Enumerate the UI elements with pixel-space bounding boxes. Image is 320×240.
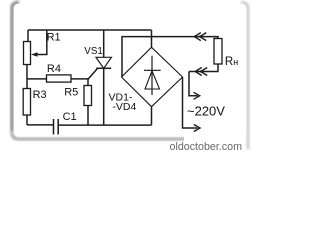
wire: R4 right to gate node — [71, 78, 88, 80]
mains pin arrow lower — [194, 125, 200, 132]
wire: bridge left corner up and right to load connector — [122, 37, 218, 77]
bridge inner diode triangle — [145, 71, 160, 89]
resistor R3 body — [23, 89, 30, 116]
wire: R1 bottom to junction node — [26, 65, 28, 80]
resistor Rn (load) body — [214, 39, 222, 65]
svg-text:~220V: ~220V — [187, 104, 225, 119]
label VD1- — [108, 91, 136, 103]
capacitor C1 right plate — [57, 119, 59, 135]
svg-text:oldoctober.com: oldoctober.com — [170, 141, 243, 153]
bridge inner diode cathode bar — [144, 69, 161, 71]
svg-text:Rн: Rн — [225, 56, 238, 68]
white strip behind watermark — [184, 136, 246, 159]
capacitor C1 left plate — [53, 119, 55, 135]
wire: R5 top lead — [87, 79, 89, 86]
svg-text:R5: R5 — [64, 86, 78, 98]
wire: VS1 anode lead from top rail — [103, 30, 105, 57]
photo frame border: right side — [241, 3, 248, 150]
photo frame border: bottom side — [12, 132, 243, 139]
wire: R1 wiper vertical from top rail — [34, 30, 47, 55]
wire: top rail — [28, 29, 152, 31]
thyristor VS1 triangle — [96, 57, 111, 68]
white canvas of schematic — [14, 4, 246, 137]
wire: R3 bottom lead — [26, 115, 28, 125]
svg-text:R1: R1 — [47, 31, 61, 43]
wire: VS1 cathode lead to bottom rail — [103, 68, 105, 125]
mains pin arrow upper — [194, 92, 200, 99]
svg-text:C1: C1 — [63, 111, 77, 123]
svg-text:R4: R4 — [47, 63, 61, 75]
wire: VS1 gate diagonal — [88, 69, 97, 80]
R1 wiper arrowhead — [31, 52, 38, 56]
connector X1 chevrons (load top) — [194, 33, 206, 41]
connector X2 chevrons (load bottom) — [195, 68, 207, 76]
wire: bottom rail from C1 to bridge bottom — [58, 124, 151, 126]
bridge inner diode vertical lead — [151, 56, 153, 95]
svg-text:R3: R3 — [33, 89, 47, 101]
photo frame border: left side — [12, 3, 19, 133]
wire: bridge top corner lead — [151, 30, 153, 47]
wire: bridge bottom corner lead — [151, 107, 153, 125]
wire: R5 bottom lead — [87, 106, 89, 126]
wire: drop from top rail to R1 top — [27, 30, 29, 42]
photo frame border: top side — [18, 2, 241, 4]
resistor R1 (potentiometer body) — [24, 42, 31, 65]
diode bridge VD1-VD4 diamond — [122, 47, 183, 106]
wire: junction down to R3 top — [26, 79, 28, 89]
svg-text:VS1: VS1 — [84, 46, 103, 57]
thyristor VS1 cathode bar — [96, 67, 111, 69]
wire: bridge right corner down to lower mains pin — [183, 77, 198, 128]
wire: junction to R4 left — [27, 78, 47, 80]
resistor R5 body — [84, 86, 92, 106]
resistor R4 body — [47, 75, 72, 82]
wire: Rn bottom lead left to connector corner — [189, 64, 218, 72]
svg-text:-VD4: -VD4 — [112, 101, 136, 113]
wire: bottom rail left segment to C1 — [27, 124, 54, 126]
wire: upper mains pin with corner — [189, 72, 198, 96]
label -VD4 — [112, 101, 142, 113]
